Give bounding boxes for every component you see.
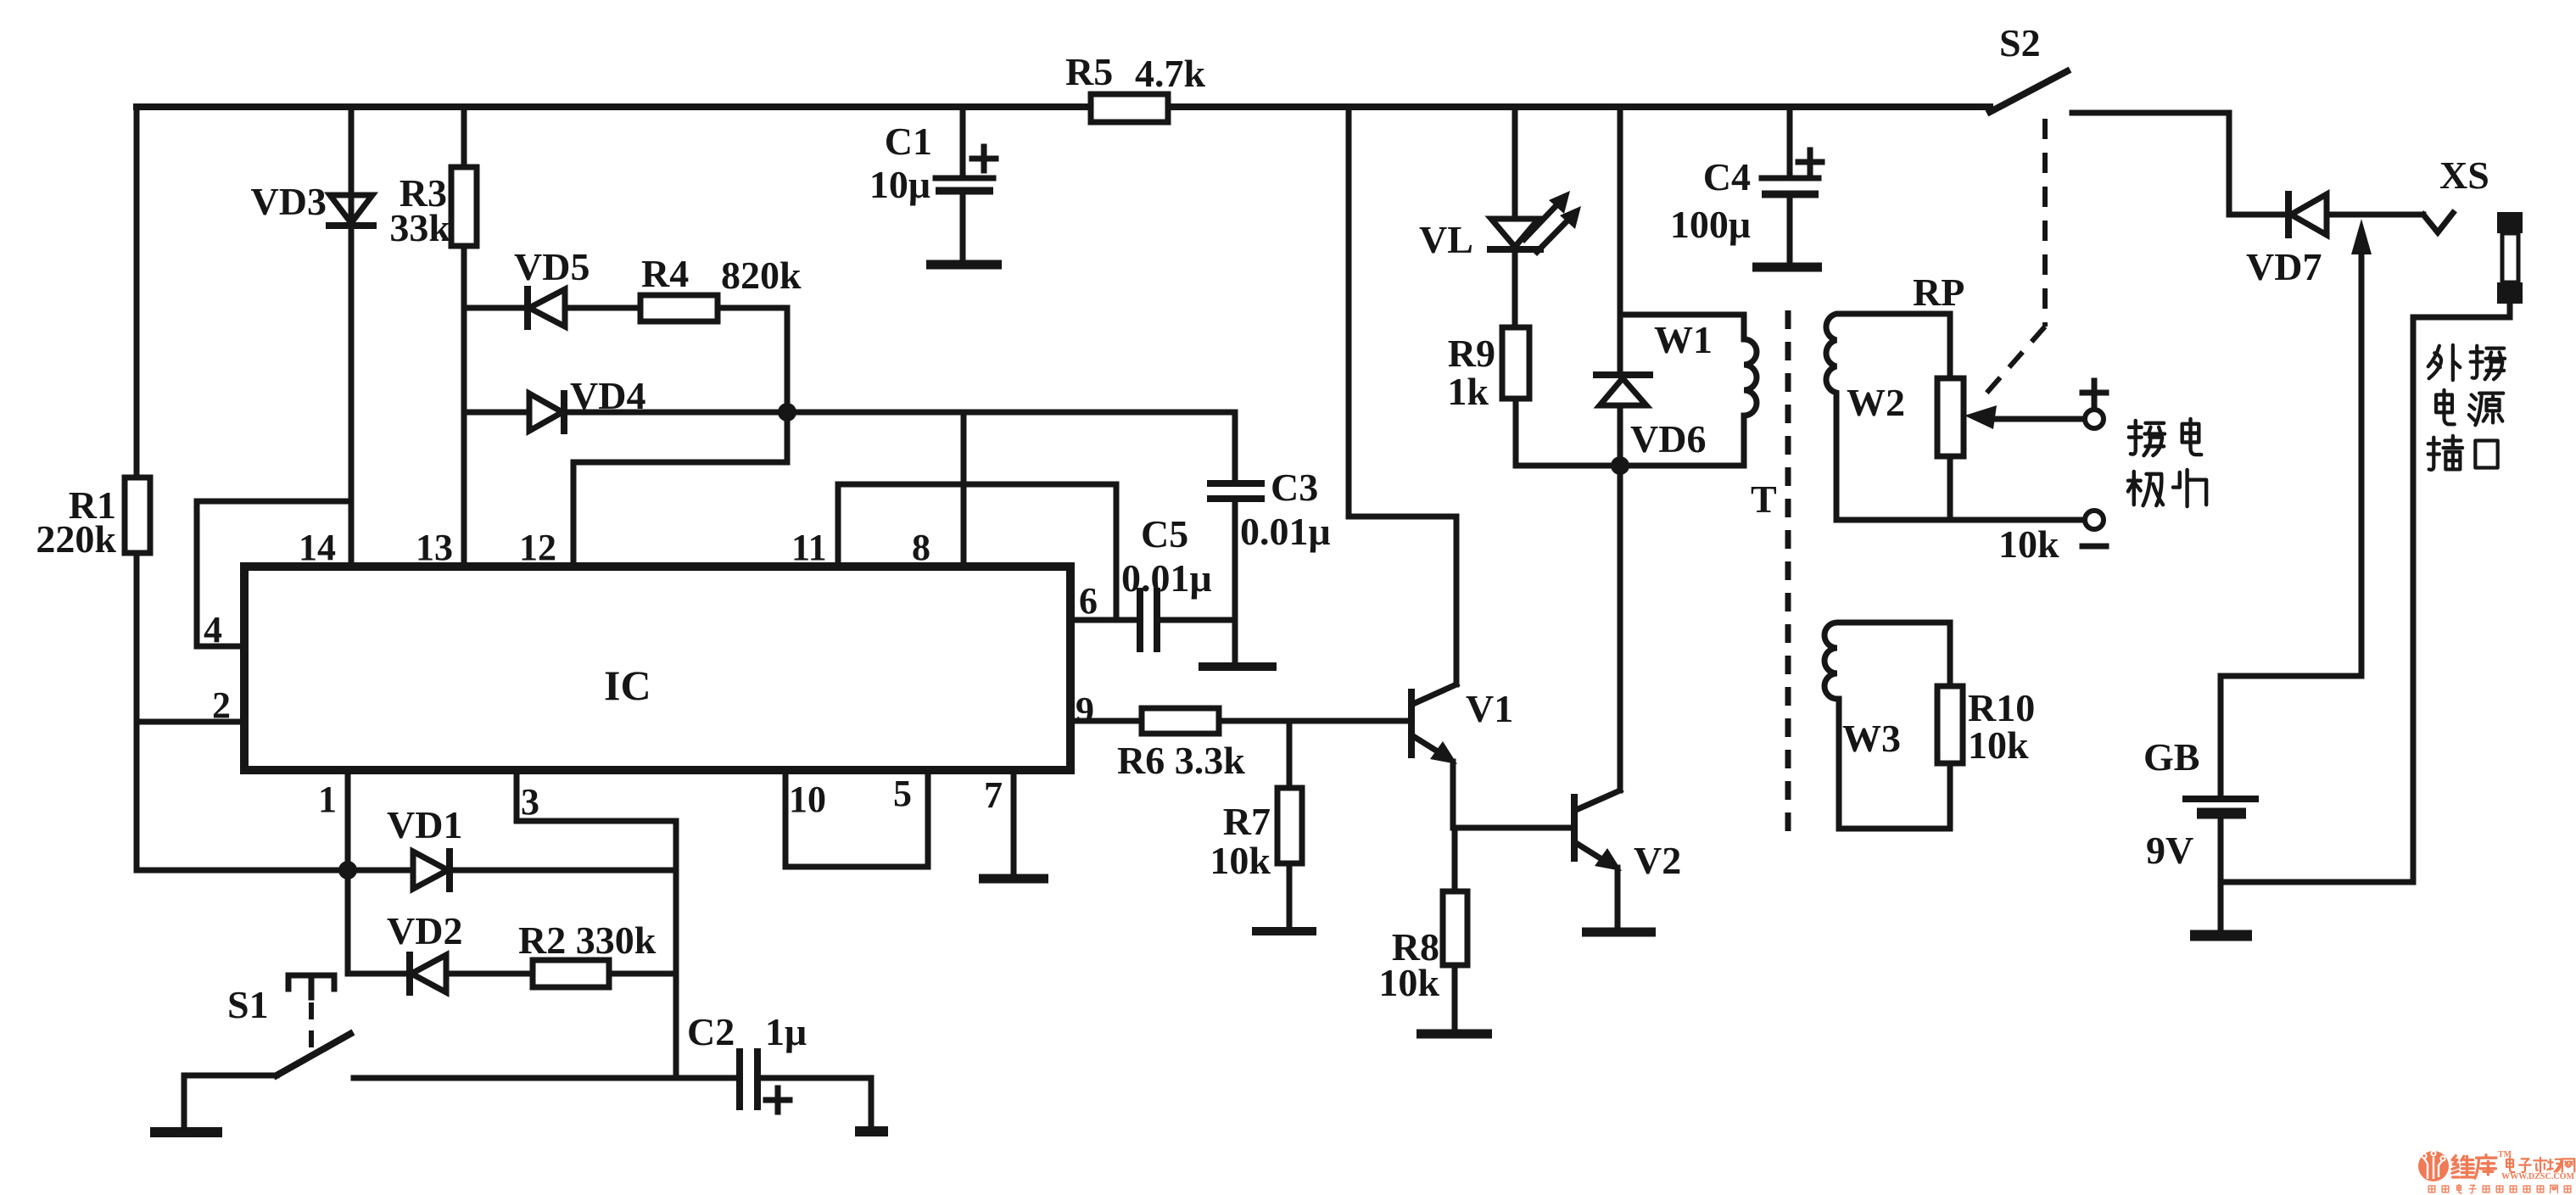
diode VD7	[2288, 194, 2327, 235]
wire: VD7 to jack XS	[2327, 212, 2423, 218]
svg-text:10μ: 10μ	[869, 163, 930, 206]
wire: W2 bottom to minus terminal	[1836, 517, 2084, 523]
diode VD1	[413, 852, 450, 889]
plus sign of electrode terminal	[2082, 381, 2106, 405]
svg-text:9: 9	[1076, 690, 1094, 731]
capacitor C4 (electrolytic)	[1762, 178, 1819, 263]
ground for GB	[2190, 930, 2252, 941]
wire: VL column from rail	[1512, 107, 1518, 217]
resistor R8	[1443, 891, 1467, 965]
wire: junction down to V2 collector	[1618, 466, 1623, 790]
svg-text:C3: C3	[1271, 466, 1318, 509]
IC U1 box	[244, 567, 1070, 770]
svg-text:10: 10	[789, 779, 826, 820]
wire: pin 8 drop from VD4/C3 net to IC pin 8	[961, 412, 967, 567]
wire: pin 6 stub from IC to C5	[1070, 617, 1137, 623]
wire: R8 to ground	[1452, 965, 1458, 1030]
wire: VD2 line left part	[348, 971, 410, 977]
svg-text:W2: W2	[1847, 381, 1905, 424]
svg-text:R4: R4	[641, 252, 689, 295]
svg-text:RP: RP	[1913, 271, 1964, 314]
LED VL light arrows	[1524, 191, 1581, 252]
wire: VD5 branch line from R3 column	[464, 305, 526, 311]
svg-text:2: 2	[212, 684, 231, 726]
wire: pin 7 to ground	[1011, 770, 1017, 874]
transistor V2 emitter with arrow	[1576, 843, 1622, 871]
wire: VL to R9	[1512, 249, 1518, 327]
svg-text:R2 330k: R2 330k	[518, 919, 657, 962]
switch S2 blade	[1990, 71, 2067, 112]
svg-text:0.01μ: 0.01μ	[1121, 556, 1212, 600]
wire: battery plus up and right	[2221, 676, 2361, 797]
svg-text:3: 3	[521, 781, 539, 823]
svg-text:13: 13	[416, 527, 453, 568]
plus sign of C4	[1798, 150, 1822, 174]
wire: emitter node to V2 base	[1453, 825, 1572, 831]
resistor R9	[1502, 327, 1529, 399]
wire: battery feed arrow up to XS node	[2351, 219, 2372, 676]
wire: S2 right contact to VD7 corner	[2072, 113, 2288, 215]
wire: battery minus down with branch right	[2221, 818, 2413, 930]
wire: VD6 anode to junction	[1618, 405, 1623, 466]
wire: pin 10 / pin 5 U loop under IC	[785, 770, 928, 867]
wire: VD4 branch line from R3 column	[464, 410, 529, 416]
svg-text:VD7: VD7	[2246, 245, 2322, 288]
wire: C2 right lead to ground	[760, 1078, 871, 1127]
svg-text:GB: GB	[2143, 735, 2199, 779]
wire: VD1 to right-side vertical	[450, 868, 676, 874]
svg-text:IC: IC	[604, 662, 651, 709]
wire: junction to VD1	[348, 868, 413, 874]
transistor V2 base bar	[1571, 794, 1578, 862]
wire: plug down and left and down to battery minus	[2413, 304, 2510, 882]
minus sign of electrode terminal	[2082, 544, 2106, 550]
svg-text:XS: XS	[2439, 154, 2489, 197]
node: pin1 / VD1 junction	[338, 861, 357, 879]
svg-text:T: T	[1751, 477, 1777, 521]
wire: C3 top lead to VD4 net	[1232, 412, 1238, 482]
svg-text:R7: R7	[1223, 800, 1271, 843]
wire: V1 collector feed from rail (down, right, down)	[1349, 107, 1456, 684]
svg-text:10k: 10k	[1968, 723, 2029, 767]
label external power socket (wai jie dian yuan cha kou)	[2428, 345, 2505, 470]
svg-text:S1: S1	[227, 983, 269, 1026]
svg-text:14: 14	[299, 527, 336, 568]
svg-text:WWW.DZSC.COM: WWW.DZSC.COM	[2501, 1172, 2575, 1181]
wire: R7 branch down	[1287, 721, 1293, 788]
wire: C4 column from rail	[1787, 107, 1793, 176]
node: junction of R4 / VD4 / pin12 / C3 net	[778, 403, 796, 422]
wire: R2 right lead to vertical	[609, 971, 676, 977]
diode VD2	[410, 955, 446, 992]
resistor R2	[533, 960, 609, 987]
svg-text:4.7k: 4.7k	[1135, 52, 1206, 95]
winding W3 coil	[1824, 623, 1950, 829]
LED VL	[1490, 219, 1540, 249]
terminal circle minus	[2085, 511, 2104, 529]
watermark tagline	[2428, 1184, 2571, 1192]
wire: R4 right lead down to junction	[718, 308, 787, 412]
svg-text:R5: R5	[1065, 50, 1113, 93]
svg-text:1μ: 1μ	[765, 1010, 807, 1053]
capacitor C5	[1140, 591, 1157, 649]
wire: loop top horizontal pin11 to right of IC	[838, 482, 1116, 488]
svg-text:VD3: VD3	[251, 180, 327, 223]
svg-text:VD6: VD6	[1630, 417, 1706, 461]
svg-text:1k: 1k	[1447, 370, 1489, 413]
svg-text:W3: W3	[1842, 717, 1901, 760]
transistor V1 collector	[1413, 684, 1456, 704]
transformer T dashed core line	[1785, 310, 1791, 831]
resistor R4	[640, 295, 718, 321]
resistor R6	[1142, 708, 1219, 734]
wire: VD4 line to junction and on to C3	[564, 410, 1234, 416]
svg-text:6: 6	[1079, 580, 1098, 622]
ground for C2	[855, 1126, 888, 1136]
wire: R10 to W3 bottom	[1839, 763, 1950, 829]
svg-text:1: 1	[318, 779, 337, 820]
svg-text:R6 3.3k: R6 3.3k	[1117, 739, 1245, 782]
wire: S1 right contact to C2	[354, 1075, 740, 1081]
terminal circle plus	[2085, 410, 2104, 428]
svg-text:C5: C5	[1141, 512, 1188, 556]
wire: V2 emitter to ground	[1615, 868, 1621, 929]
label electrode pads (jie dian ji pian)	[2128, 419, 2206, 506]
wire: R9 down and right to VD6/W1 junction	[1516, 399, 1620, 466]
watermark logo circle	[2418, 1151, 2449, 1181]
wire: VD5 to R4	[565, 305, 640, 311]
svg-text:7: 7	[984, 774, 1003, 816]
capacitor C2 (electrolytic)	[740, 1052, 757, 1107]
ground for C3/C5	[1199, 662, 1277, 671]
wire: C3 bottom lead down to ground	[1232, 500, 1238, 663]
wire: pin 14 / VD3 column from rail to IC pin 14	[349, 107, 355, 567]
relay coil W1 loop	[1620, 315, 1757, 466]
transistor V1 emitter with arrow	[1413, 736, 1457, 764]
wire: pin 4 jog (IC pin4 left, up, right to VD3 column)	[197, 501, 351, 646]
wire: top supply rail	[137, 103, 1990, 110]
plus sign of C2	[766, 1088, 790, 1112]
capacitor C1 (electrolytic)	[936, 178, 993, 260]
diode VD6	[1596, 375, 1650, 405]
svg-text:820k: 820k	[721, 254, 802, 297]
wire: pin 11 to loop top	[835, 484, 841, 567]
svg-text:S2: S2	[1999, 21, 2041, 64]
svg-text:C4: C4	[1703, 155, 1751, 198]
ground for C1	[926, 260, 1002, 270]
svg-text:12: 12	[519, 527, 556, 568]
wire: VD2 to R2	[446, 971, 533, 977]
svg-text:W1: W1	[1654, 318, 1713, 361]
battery GB plates	[2182, 799, 2259, 813]
svg-text:VD2: VD2	[387, 909, 462, 952]
svg-text:220k: 220k	[36, 517, 116, 561]
plus sign of C1	[972, 147, 996, 170]
watermark brand weiku	[2452, 1155, 2496, 1179]
resistor R5	[1091, 94, 1168, 122]
node: VD6 / W1 / V2 collector junction	[1611, 456, 1629, 475]
svg-text:C1: C1	[885, 120, 932, 163]
ground for C4	[1752, 263, 1822, 272]
diode VD5	[528, 289, 565, 327]
svg-text:VD1: VD1	[387, 803, 462, 846]
potentiometer RP body	[1937, 314, 1964, 520]
wire: loop right vertical down to pin 6 line	[1114, 484, 1120, 620]
plug connector of external supply	[2497, 212, 2523, 304]
wire: pin 9 stub to R6	[1070, 718, 1142, 724]
wire: left vertical bus from rail down to R1 and pin 2 level	[134, 107, 140, 870]
resistor R10	[1937, 686, 1963, 763]
pushbutton S1 cap	[288, 975, 334, 997]
wire: pin 3 feed (down and right then down to C2 line)	[517, 770, 676, 1078]
wire: junction down to VD2 line	[345, 870, 351, 974]
wire: pin 12 feed (IC pin12 up, right, up to junction)	[573, 412, 787, 567]
svg-text:5: 5	[893, 773, 912, 814]
ground for pin 7	[979, 874, 1048, 884]
wire: IC pin 1 down to junction	[345, 770, 351, 870]
resistor R7	[1277, 788, 1302, 863]
wire: R8 column	[1452, 828, 1458, 891]
svg-text:V2: V2	[1634, 839, 1681, 882]
diode VD3	[329, 195, 373, 226]
svg-text:33k: 33k	[389, 206, 450, 249]
svg-text:V1: V1	[1466, 687, 1513, 730]
resistor R1	[125, 477, 150, 553]
wire: left bus corner to pin1 junction	[137, 868, 348, 874]
wire: S1 left leg to ground	[184, 1075, 277, 1128]
resistor R3	[451, 167, 477, 246]
wire: C5 right lead to ground column	[1159, 617, 1235, 623]
winding W2 coil	[1826, 314, 1950, 520]
wire: W3 loop right side	[1947, 623, 1953, 686]
pushbutton S1 actuator dashes	[309, 1002, 314, 1053]
svg-text:4: 4	[204, 609, 222, 651]
switch S1 blade	[277, 1034, 350, 1075]
wire: C1 column from rail	[960, 107, 966, 176]
svg-text:R9: R9	[1448, 332, 1495, 375]
svg-text:8: 8	[912, 527, 930, 568]
switch S2 linkage dashes to RP	[1983, 119, 2045, 397]
svg-text:VD5: VD5	[514, 245, 590, 288]
transistor V1 base bar	[1408, 689, 1415, 758]
wire: pin 2 stub from left bus to IC	[137, 719, 244, 725]
svg-text:11: 11	[791, 527, 827, 568]
svg-text:100μ: 100μ	[1670, 203, 1751, 246]
transistor V2 collector	[1576, 790, 1620, 810]
capacitor C3	[1210, 483, 1261, 499]
ground for V2	[1582, 928, 1656, 937]
wire: R6 to V1 base	[1219, 718, 1409, 724]
svg-text:10k: 10k	[1998, 522, 2059, 566]
wire: V1 emitter down to node	[1450, 762, 1456, 828]
svg-text:10k: 10k	[1378, 961, 1439, 1004]
wire: R3 column from rail to IC pin 13	[461, 107, 467, 567]
svg-text:9V: 9V	[2146, 829, 2193, 872]
wire: R7 to ground	[1287, 863, 1293, 928]
wire: VD6 column from rail down to cathode	[1618, 107, 1623, 375]
ground for S1	[150, 1127, 222, 1137]
ground for R7	[1252, 927, 1316, 935]
watermark dianzishichangwang	[2506, 1158, 2574, 1173]
svg-text:C2: C2	[687, 1010, 735, 1053]
svg-text:10k: 10k	[1210, 839, 1271, 882]
potentiometer RP wiper arrow	[1964, 405, 2085, 429]
diode VD4	[529, 394, 564, 431]
ground for R8	[1417, 1030, 1492, 1039]
jack XS hook	[2423, 213, 2453, 232]
svg-text:VL: VL	[1419, 218, 1473, 261]
svg-text:0.01μ: 0.01μ	[1240, 510, 1331, 553]
